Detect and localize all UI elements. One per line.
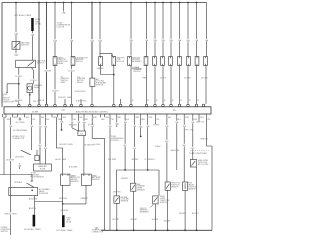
wire x=39 to bar [38,3,40,104]
svg-text:YEL: YEL [207,119,210,121]
branch tee to ignition module stub [7,83,19,85]
svg-text:FLOW SENSOR: FLOW SENSOR [31,176,45,178]
wire from bus at x=163 [162,3,164,57]
svg-text:ORG: ORG [105,117,110,119]
svg-text:BLK/LT GRN: BLK/LT GRN [55,159,66,161]
wire x=140.7 ends with dot [140,117,142,136]
bar bottom stub x=92.2 [91,114,93,117]
wire from bus at x=55 [54,3,56,57]
wire from bus at x=206.5 [206,3,208,57]
ECT sensor box [114,196,120,203]
wire from bus at x=131 [130,3,132,56]
wire x=166.9 to TPS box [166,117,168,182]
bar bottom stub x=57.5 [57,114,59,117]
wire ignition switch to bar pin A [18,68,20,104]
bar bottom stub x=100.5 [100,114,102,117]
svg-text:YEL: YEL [32,119,35,121]
bar bottom stub x=125.1 [124,114,126,117]
wire x=196.5 below box to bar [196,66,198,104]
svg-text:SWITCH: SWITCH [37,63,45,65]
svg-text:16 BLK/LT GRN: 16 BLK/LT GRN [59,144,73,146]
wire WOT switch down [196,167,198,230]
wire x=146.5 below box to bar [146,66,148,104]
wire from bus at x=179.5 [179,3,181,57]
bar bottom stub x=147.7 [147,114,149,117]
svg-text:HOT AT ALL TIMES: HOT AT ALL TIMES [24,228,41,231]
wire label on x=55 upper [52,39,57,41]
bar bottom stub x=78.5 [78,114,80,117]
wire x=179.5 below box to bar [179,66,181,104]
svg-text:16: 16 [147,100,149,102]
dashed line to air conditioner [190,149,209,151]
wires x=72/78.5/84 to water temp box [71,117,73,128]
svg-text:BLK/YEL: BLK/YEL [6,160,15,162]
ground bus bottom [101,229,212,231]
svg-text:CONTROL: CONTROL [111,140,120,142]
bar bottom stub x=104.5 [104,114,106,117]
bypass valve terminal dot [31,189,33,191]
mass air flow sensor box [34,164,52,171]
bar bottom stub x=206.5 [206,114,208,117]
svg-text:ORG/BLK: ORG/BLK [14,182,23,184]
svg-text:16: 16 [180,100,182,102]
bar bottom stub x=176.8 [176,114,178,117]
wire label below fuse link [30,33,35,35]
wire knock sensor to ground bus [154,204,156,230]
switch S1 lever [14,43,20,49]
svg-text:HOT AT ALL TIMES: HOT AT ALL TIMES [57,229,74,232]
svg-text:YEL: YEL [111,119,114,121]
svg-text:ORG: ORG [25,117,30,119]
svg-text:RED/LT GRN: RED/LT GRN [5,213,17,215]
bar bottom stub x=17.5 [17,114,19,117]
ignition switch SW1 lever [28,61,34,66]
svg-text:SENSOR: SENSOR [171,187,179,189]
wire label RED/LT GRN on x=10.5 [8,212,13,214]
wire x=116.8 stub with annotation [116,117,118,127]
svg-text:SENSOR: SENSOR [92,179,100,181]
wire x=125.1 to sensor harness tee [124,117,126,170]
bar bottom stub x=184.2 [183,114,185,117]
svg-text:A BLK/YEL: A BLK/YEL [171,149,180,152]
stub label on wire x=63.5 [61,12,66,14]
bar bottom stub x=45.5 [45,114,47,117]
starter relay K1 box [27,84,33,93]
svg-text:PIN 5 A: PIN 5 A [38,99,45,102]
wire x=45.5 into MAF [45,117,47,164]
svg-text:14 BLK: 14 BLK [52,90,59,92]
extra pin stub x=65 [64,99,66,104]
svg-text:GRN/WT: GRN/WT [80,198,89,200]
wire labels right bank at y=40 [128,39,133,41]
inline connector box at x=113.8 [112,57,116,66]
fuse link FL1 (black bar) [31,18,34,31]
bar bottom stub x=31.5 [31,114,33,117]
bar bottom stub x=12.5 [12,114,14,117]
wire x=192.8 to WOT switch [192,117,194,159]
svg-text:16: 16 [164,100,166,102]
svg-text:16 BLK/ORG: 16 BLK/ORG [76,101,87,103]
wire below water temp box to vane air temp [83,136,85,175]
wire x=199 stub [198,117,200,121]
svg-text:SWITCH: SWITCH [1,231,9,233]
wire label 16 RED lower [16,99,21,101]
svg-text:YEL: YEL [156,119,159,121]
vane air flow meter box [61,174,71,185]
bar bottom stub x=134.4 [133,114,135,117]
svg-text:16: 16 [132,100,134,102]
wire x=134.4 to ACT sensor [133,117,135,183]
bar bottom stub x=110 [109,114,111,117]
wire label below switch S1 [13,53,18,55]
wire label 14 BLK [31,79,36,81]
svg-text:RED/ORG: RED/ORG [69,125,78,127]
svg-text:G101: G101 [95,229,99,231]
svg-text:16: 16 [189,100,191,102]
harness drop left to ECT [116,170,118,196]
wire x=113.8 to bar [113,66,115,104]
inline connector box at x=146 [144,57,148,66]
svg-text:16 RED: 16 RED [15,76,23,78]
bar bottom stub x=155.7 [155,114,157,117]
ACT sensor box [131,183,136,191]
svg-text:BLK/WT: BLK/WT [192,213,200,215]
svg-text:BLK/ORG: BLK/ORG [15,157,24,159]
svg-text:16: 16 [172,100,174,102]
starter relay K1 coil circle [28,86,32,90]
wire x=188 below box to bar [187,66,189,104]
EEC module connector pins (circles) [18,104,21,107]
wire from bus at x=63.5 [63,3,65,12]
inline connector box at x=73 [71,57,75,66]
inline connector box at x=179.5 [178,57,182,66]
inline connector box at x=205.5 [204,57,208,66]
svg-text:W/ CALIFORNIA: W/ CALIFORNIA [13,129,27,132]
wire into small box S [36,150,38,155]
EGR position sensor box [183,182,188,190]
bar bottom stub x=2.5 [2,114,4,117]
ignition module stub tick [6,92,8,94]
water temp sender box [78,131,86,136]
svg-text:16 ORG: 16 ORG [201,78,208,80]
extra bottom wire labels row 2 [37,144,42,146]
wire label 16 RED upper [16,75,21,77]
svg-text:SWITCH: SWITCH [133,71,141,73]
svg-text:ASSEMBLY: ASSEMBLY [132,60,142,63]
svg-text:BLK/GRN: BLK/GRN [29,198,38,200]
svg-text:RELAY: RELAY [58,62,65,65]
ground strap blob left [33,215,36,227]
wire label 14 BLK left [52,89,57,91]
svg-text:14 BLK/ORG: 14 BLK/ORG [75,91,87,93]
wire x=56.5 jog to vane meter [57,117,63,174]
wire from bus at x=46.5 [46,3,48,105]
wire label 14A on wire x=16 [13,32,18,34]
ignition switch SW1 box [16,60,36,67]
wire x=163 below box to bar [162,66,164,104]
svg-text:4.6 EFI: 4.6 EFI [32,111,39,113]
svg-text:GRN/YEL: GRN/YEL [60,210,68,212]
wire x=40 into MAF [39,117,41,164]
svg-text:16 ORG: 16 ORG [94,144,101,146]
inline connector box at x=162.5 [161,57,165,66]
wire x=155 below box to bar [154,66,156,104]
wire x=10.5 full height left [10,117,12,235]
svg-text:A/C CUTOFF: A/C CUTOFF [198,163,210,166]
bar bottom stub x=199 [198,114,200,117]
inline connector box at x=197 [195,57,199,66]
svg-text:BLK/WT: BLK/WT [164,220,172,222]
svg-text:BLK/WT: BLK/WT [152,219,160,221]
svg-text:14 GRN: 14 GRN [184,78,191,80]
left frame wire [1,3,3,108]
svg-text:SWITCH: SWITCH [21,45,29,47]
harness drop right to knock sensor [158,170,160,196]
wire from bus at x=92 [91,3,93,79]
svg-text:PPL GRN: PPL GRN [108,159,117,161]
svg-text:GRN/YEL: GRN/YEL [200,139,208,141]
diagonal into bypass valve box [27,183,34,187]
wire from bus at x=39 [38,3,40,105]
wire x=176.8 mid stub [176,117,178,170]
svg-text:LAMP: LAMP [61,81,67,84]
clutch switch lever diagonal [21,150,31,155]
knock sensor leader curve [150,204,153,208]
svg-text:20 GA: 20 GA [66,220,72,223]
extra pin stub x=81 [80,99,82,104]
wire x=171 below box to bar [170,66,172,104]
bar bottom stub x=24.5 [24,114,26,117]
bar bottom stub x=52 [51,114,53,117]
wire label on x=140.7 [138,125,143,127]
wire label on x=100 [97,39,102,41]
top power bus B+ [2,2,207,4]
svg-text:PIN 1: PIN 1 [33,101,38,103]
TPS box [165,182,170,190]
wire label on x=92 [89,39,94,41]
wire x=206.5 right edge jog [207,117,213,230]
bar bottom stub x=140.7 [140,114,142,117]
svg-text:YEL: YEL [73,119,76,121]
wire below fuse link FL1 [31,31,33,60]
wire from bus at x=196.5 [196,3,198,57]
wire label 16 GRN [45,69,50,71]
wire ECT to ground bus [116,203,118,230]
wire x=92 through relay to bar [91,3,93,79]
svg-text:BLK/WT: BLK/WT [113,219,121,221]
wire x=20 stub with annotation [19,117,21,120]
inline connector box at x=129.5 [128,57,132,66]
inline connector box at x=100.6 [99,57,103,66]
svg-text:T RED: T RED [142,78,148,80]
inline connector box at x=188.5 [187,57,191,66]
extra pin stub x=120.5 [120,99,122,104]
svg-text:CLUTCH: CLUTCH [57,27,65,29]
wire TPS to ground bus [167,190,169,230]
horizontal wire y=174.5 left [0,174,32,176]
inline connector box at x=170.5 [169,57,173,66]
bar bottom stub x=166.9 [166,114,168,117]
svg-text:ORG: ORG [148,117,153,119]
wire from bus at x=146.5 [146,3,148,57]
wire from bus at x=100 [99,3,101,57]
bar bottom stub x=192.8 [192,114,194,117]
small box S above MAF [35,155,39,160]
angled joins into small box [72,128,79,131]
svg-text:ORG: ORG [200,117,205,119]
svg-text:MODULE: MODULE [116,61,124,63]
WOT A/C cutoff switch box [190,160,196,168]
wire ACT to ground bus [133,191,135,230]
wire label BLK/YEL on x=10.5 [8,159,13,161]
svg-text:BARO 16: BARO 16 [197,120,205,123]
wire label on x=71.5 upper [69,39,74,41]
svg-text:SWITCH: SWITCH [76,61,84,63]
svg-text:16 BLK: 16 BLK [68,70,75,72]
svg-text:EFI: EFI [173,110,176,112]
inline connector box at x=154.5 [153,57,157,66]
knock sensor box [153,196,158,204]
svg-text:CONNECTOR: CONNECTOR [13,138,25,140]
wire x=46.5 to bar [46,57,48,104]
wire from bus at x=16 [15,3,17,57]
sensor harness horizontal y=170 [117,169,160,171]
wire label 16 BLK [69,69,74,71]
A/C cycling relay K2 box [90,78,95,86]
svg-text:A 16 GA B: A 16 GA B [69,166,78,169]
thermactor switch S1 box [12,42,20,50]
bar bottom stub x=116.8 [116,114,118,117]
svg-text:SOLENOID: SOLENOID [39,193,49,195]
svg-text:SENSOR: SENSOR [71,181,79,183]
svg-text:LT GRN/PPL: LT GRN/PPL [145,159,155,161]
svg-text:16: 16 [197,100,199,102]
svg-text:SENSOR: SENSOR [188,189,196,191]
svg-text:GRN/WT: GRN/WT [121,178,129,180]
svg-text:14 BLK: 14 BLK [30,80,37,82]
svg-text:BLK/YEL: BLK/YEL [29,208,37,210]
svg-text:SWITCH: SWITCH [160,202,168,204]
svg-text:ASSEMBLY: ASSEMBLY [140,211,150,214]
wire x=4 long left [3,117,5,174]
elbow below box x=100.6 to x=113.8 [101,66,114,75]
svg-text:16 BLK: 16 BLK [160,78,167,80]
bar bottom stub x=40 [39,114,41,117]
wire x=184.2 to EGR sensor [183,117,185,182]
jumper from wire x=100 to box x=113.8 [100,53,112,56]
svg-text:16: 16 [156,100,158,102]
bar bottom stub x=61.5 [61,114,63,117]
wire x=71.5 below box to bar [71,66,73,104]
wire x=131 below box to bar [130,66,132,104]
svg-text:16 GA: 16 GA [35,22,41,25]
A/C bypass valve box [9,188,38,196]
svg-text:FLOW: FLOW [40,169,45,171]
svg-text:NO CONN: NO CONN [16,122,25,124]
svg-text:RELAY: RELAY [34,86,41,89]
svg-text:SENSOR: SENSOR [121,201,129,203]
svg-text:HOT AT ALL TIMES: HOT AT ALL TIMES [14,14,31,17]
wire x=110 to ground bus [109,117,111,230]
svg-text:CONNECTOR: CONNECTOR [92,232,104,234]
wire ignition switch start terminal [32,68,34,80]
wire EGR to ground bus [184,190,186,230]
svg-text:TO AIR CONDITIONER: TO AIR CONDITIONER [189,152,208,155]
wire from bus at x=71.5 [71,3,73,57]
wire label on x=61.5 [59,121,64,123]
wire x=206.5 below box to bar [205,66,207,104]
jumper arrowhead [111,55,113,57]
svg-text:GRN/YEL: GRN/YEL [59,198,67,200]
wire below relay with arrowhead [29,93,31,104]
svg-text:14 RED: 14 RED [153,124,160,126]
svg-text:16 GRN: 16 GRN [44,70,52,72]
wire x=92.2 jog right [92,117,104,230]
svg-text:14 BLK: 14 BLK [155,146,162,148]
svg-text:GRN/WT: GRN/WT [131,159,139,161]
svg-text:RELAY: RELAY [77,81,84,84]
extra bottom wire labels row 1 [8,125,13,127]
svg-text:SWITCH: SWITCH [96,85,104,87]
bar bottom stub x=6 [5,114,7,117]
wire below bypass box [34,196,36,215]
svg-text:BLK/WT: BLK/WT [179,213,187,215]
tick stub x=19.6 [19,163,21,169]
svg-text:ELECTRONIC MODULE CONTROL: ELECTRONIC MODULE CONTROL [76,112,109,114]
wire from bus at x=188 [187,3,189,57]
EEC module bar U1 [4,107,211,114]
svg-text:BLK/WT: BLK/WT [131,219,139,221]
wire from bus at x=171 [170,3,172,57]
svg-text:16 BLK/LT GRN: 16 BLK/LT GRN [58,97,72,99]
vane air temp sensor box [81,174,91,185]
bar bottom stub x=72 [71,114,73,117]
wire from bus at x=155 [154,3,156,57]
fuse link blob center [62,215,65,227]
corner down from horizontal [31,175,33,183]
wire x=55 below box to bar [54,66,56,104]
bar bottom stub x=84 [83,114,85,117]
wire x=147.7 to tee [147,117,149,170]
horizontal wire y=201.5 from bypass [35,201,63,203]
wires from vane boxes converge [62,185,64,215]
inline connector box at x=55 [53,57,57,66]
wire x=31.5 down to clutch switch [31,117,33,150]
ignition module stub wire [6,84,8,93]
wire x=61.5 ending with dot [61,117,63,129]
svg-text:SENSOR: SENSOR [137,190,145,192]
svg-text:PPL / YEL: PPL / YEL [185,129,193,131]
svg-text:ORG: ORG [62,117,67,119]
wire x=155.7 short [155,117,157,124]
svg-text:GRN/YEL: GRN/YEL [113,191,121,193]
svg-text:16 RED: 16 RED [13,101,20,103]
